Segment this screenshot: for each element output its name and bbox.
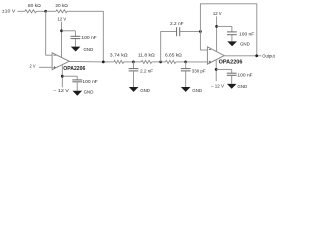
svg-text:2.2 nF: 2.2 nF	[170, 21, 184, 26]
ground (C6)	[227, 41, 250, 46]
ground (C4)	[181, 87, 203, 93]
svg-text:GND: GND	[84, 89, 95, 94]
resistor R4 11.8 kΩ	[138, 52, 155, 63]
wire U2 output	[224, 55, 261, 57]
ground (C1)	[71, 47, 94, 53]
resistor R5 6.65 kΩ	[165, 52, 182, 63]
wire junction to C2	[62, 75, 77, 77]
wire +12 V to U1 V+ pin	[61, 22, 63, 58]
wire C2 to ground	[76, 82, 78, 91]
svg-text:20 kΩ: 20 kΩ	[55, 3, 68, 8]
wire node A to R2	[46, 10, 56, 12]
svg-text:– 12 V: – 12 V	[211, 83, 224, 88]
node D junction	[184, 61, 187, 64]
op-amp U1 OPA2206	[52, 53, 85, 72]
svg-text:100 nF: 100 nF	[239, 31, 255, 36]
ground (C2)	[73, 89, 95, 95]
svg-text:12 V: 12 V	[58, 17, 67, 22]
capacitor C5 2.2 nF feedback	[161, 21, 201, 62]
op-amp U2 OPA2206	[207, 47, 242, 66]
junction U1 output / feedback	[102, 61, 105, 64]
node A junction	[44, 10, 47, 13]
svg-text:100 nF: 100 nF	[237, 73, 253, 78]
svg-text:100 nF: 100 nF	[81, 35, 97, 40]
wire R1 to node A	[36, 10, 45, 12]
wire junction to C1	[62, 30, 76, 32]
wire node D to U2 non-inverting input	[186, 61, 208, 63]
svg-text:2 V: 2 V	[30, 64, 36, 69]
wire R5 to node D	[176, 61, 186, 63]
svg-text:GND: GND	[237, 84, 248, 89]
svg-text:12 V: 12 V	[213, 11, 222, 16]
svg-text:GND: GND	[84, 47, 95, 52]
capacitor C1 100 nF	[71, 31, 97, 40]
ground (C3)	[129, 87, 151, 93]
junction -12 V decoupling (U1)	[61, 75, 64, 78]
wire U2 inverting input node	[200, 4, 256, 56]
junction C5 / U2 inverting node	[199, 30, 202, 33]
svg-text:80 kΩ: 80 kΩ	[28, 3, 42, 8]
capacitor C4 330 pF	[181, 62, 206, 74]
wire C4 to ground	[185, 71, 187, 87]
capacitor C7 100 nF	[227, 69, 253, 77]
capacitor C6 100 nF	[227, 26, 255, 36]
wire node C to R5	[161, 61, 166, 63]
wire junction to C7	[216, 68, 232, 70]
wire VIN to R1	[17, 10, 25, 12]
svg-text:– 12 V: – 12 V	[53, 88, 69, 93]
svg-text:GND: GND	[192, 88, 203, 93]
node B junction	[132, 61, 135, 64]
node C junction	[159, 61, 162, 64]
svg-text:2.2 nF: 2.2 nF	[140, 68, 153, 73]
wire R4 to node C	[152, 61, 161, 63]
wire R3 to node B	[124, 61, 134, 63]
svg-text:GND: GND	[140, 88, 151, 93]
junction -12 V decoupling (U2)	[215, 68, 218, 71]
svg-text:OPA2206: OPA2206	[63, 66, 85, 72]
svg-text:Output: Output	[262, 53, 275, 59]
wire U2 V- pin to -12 V	[215, 60, 217, 81]
svg-text:11.8 kΩ: 11.8 kΩ	[138, 52, 155, 57]
wire U1 V- pin to -12 V	[61, 65, 63, 88]
wire C1 to ground	[74, 39, 76, 47]
svg-text:OPA2206: OPA2206	[219, 60, 243, 66]
ground (C7)	[227, 84, 248, 89]
svg-text:6.65 kΩ: 6.65 kΩ	[165, 52, 182, 57]
wire C6 to ground	[231, 35, 233, 42]
wire C3 to ground	[133, 71, 135, 87]
junction +12 V decoupling (U1)	[60, 29, 63, 32]
resistor R2 20 kΩ	[55, 3, 68, 13]
wire node A to U1 inverting input	[46, 11, 52, 55]
wire U1 output to R3	[69, 60, 114, 63]
svg-text:330 pF: 330 pF	[192, 68, 206, 73]
capacitor C3 2.2 nF	[129, 62, 154, 74]
resistor R3 3.74 kΩ	[110, 52, 129, 63]
junction U2 output / feedback	[255, 54, 258, 57]
svg-text:100 nF: 100 nF	[82, 79, 98, 84]
wire node B to R4	[134, 61, 142, 63]
wire C7 to ground	[231, 75, 233, 84]
wire junction to C6	[217, 25, 232, 27]
resistor R1 80 kΩ	[25, 3, 42, 13]
junction +12 V decoupling (U2)	[215, 25, 218, 28]
svg-text:3.74 kΩ: 3.74 kΩ	[110, 52, 129, 57]
feedback wire R2 to U1 output	[67, 11, 103, 62]
wire +12 V to U2 V+ pin	[216, 16, 218, 51]
svg-text:±10 V: ±10 V	[2, 8, 16, 13]
svg-text:GND: GND	[240, 42, 251, 47]
capacitor C2 100 nF	[72, 76, 98, 84]
wire 2 V to U1 non-inverting input	[39, 66, 52, 68]
